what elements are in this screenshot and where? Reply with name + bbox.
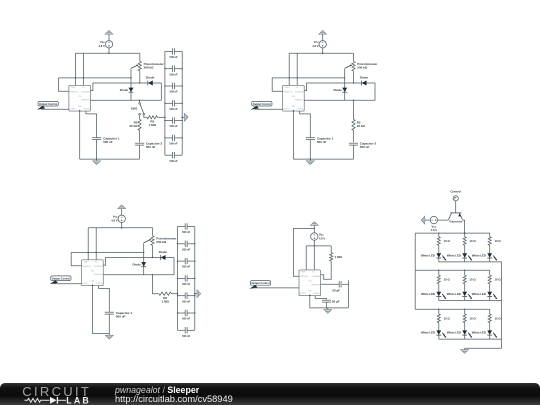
wire rail to VCC pin (95, 228, 97, 260)
wire CONTROL pin to capacitor (315, 296, 326, 300)
svg-text:http://circuitlab.com/cv58949: http://circuitlab.com/cv58949 (115, 394, 233, 404)
resistor 1 MOhm (330, 246, 332, 253)
wire potentiometer wiper (59, 69, 132, 78)
wire THRESHOLD line (91, 99, 162, 101)
wire GND pin down (79, 111, 81, 159)
wire LED row 1 bottom rail (439, 261, 502, 263)
ground (right-pointing) on ladder (182, 116, 184, 118)
power ground (flipped) for Vcc source (319, 31, 327, 35)
ground (309, 159, 311, 161)
voltage source V1 4.8 V (319, 41, 326, 48)
wire LED row 2 bottom rail (439, 300, 502, 302)
wire DISCHARGE pin to diode line (304, 83, 375, 91)
wire bottom rail (310, 307, 349, 309)
wire rail drops to IC (305, 246, 307, 270)
LED D3 White LED (487, 253, 492, 257)
wire Vcc rail (76, 52, 140, 54)
ground for LED array (464, 348, 466, 349)
potentiometer 500 kOhm (139, 53, 141, 61)
wire R2 to capacitor 2 (353, 130, 355, 142)
wire collector to rail (463, 220, 465, 233)
LED D8 White LED (462, 330, 467, 335)
wire capacitor to bottom rail (342, 283, 348, 285)
capacitor C6 500 nF (165, 137, 173, 139)
wire switch to R2 (139, 115, 141, 119)
potentiometer 500 kOhm (353, 53, 355, 61)
wire diode loop right side (374, 83, 376, 100)
555 timer U2 (299, 270, 321, 296)
wire from V1 to Vcc rail (108, 48, 110, 54)
capacitor 1 500 nF (306, 137, 315, 139)
wire junction to R2 (353, 100, 355, 119)
wire wiper to TRIGGER pin (272, 78, 282, 91)
wire bottom rail (293, 158, 353, 160)
resistor R9 10 Ohm (489, 309, 491, 314)
LED D1 White LED (436, 253, 441, 257)
capacitor C7 500 nF (165, 154, 173, 156)
output control flag (38, 101, 58, 106)
wire flag to OUTPUT pin (41, 108, 69, 110)
wire CONTROL pin to capacitor 1 (99, 286, 110, 312)
capacitor C4 500 nF (178, 277, 186, 279)
wire from V1 to Vcc rail (121, 222, 123, 228)
wire flag to OUTPUT pin (54, 283, 82, 285)
resistor R2 22 kOhm (352, 119, 355, 130)
svg-text:LAB: LAB (66, 395, 91, 405)
resistor R3 10 Ohm (489, 233, 491, 237)
resistor R3 1 MOhm (bottom-left) (159, 292, 172, 295)
resistor R1 10 Ohm (438, 233, 440, 237)
wire potentiometer wiper (71, 243, 144, 252)
resistor R3 1 MOhm (147, 116, 158, 119)
capacitor C7 500 nF (178, 329, 186, 331)
resistor R5 10 Ohm (464, 270, 466, 275)
wire wiper to TRIGGER pin (59, 78, 69, 91)
wire CONTROL pin to capacitor 1 (300, 111, 311, 137)
capacitor 2 500 nF (135, 142, 144, 144)
wire LED grid top rail (415, 232, 490, 234)
diode D2 (vertical) (143, 252, 145, 274)
wire bottom rail (92, 333, 109, 335)
capacitor 1 500 nF (92, 137, 101, 139)
capacitor 50 uF (vertical) (322, 299, 331, 301)
wire DISCHARGE pin to diode line (103, 258, 174, 266)
diode D1 (horizontal) (161, 255, 166, 260)
ground (108, 334, 110, 336)
resistor R8 10 Ohm (464, 309, 466, 314)
wire LED grid left bus (414, 233, 416, 309)
wire GND pin down (91, 286, 93, 334)
wire potentiometer wiper (272, 69, 345, 78)
output control flag (250, 281, 270, 286)
capacitor C4 500 nF (165, 102, 173, 104)
resistor R7 10 Ohm (438, 309, 440, 314)
wire rail to VCC pin (296, 53, 298, 85)
capacitor 50 uF (horizontal) (338, 281, 340, 287)
wire ground wrap to left pin (293, 228, 314, 276)
wire from V1 to Vcc rail (322, 48, 324, 54)
capacitor C3 500 nF (165, 85, 173, 87)
wire LED grid row3 top rail (415, 308, 490, 310)
wire flag to OUTPUT pin (255, 108, 283, 110)
ground (left-pointing) (425, 219, 431, 221)
voltage source V1 4.8 V (105, 41, 112, 48)
wire bottom rail (80, 158, 140, 160)
wire LED grid right bus (501, 262, 503, 348)
wire LED row 3 bottom rail (439, 338, 502, 340)
capacitor 1 500 nF (105, 311, 114, 313)
voltage source Vcc 4.8 V (horizontal) (430, 216, 437, 223)
voltage source V1 4.8 V (118, 215, 125, 222)
LED D6 White LED (487, 292, 492, 297)
diode D2 (vertical) (344, 78, 346, 100)
555 timer U1 (283, 85, 305, 111)
capacitor C1 500 nF (178, 226, 186, 228)
wire rail to RESET pin (75, 53, 77, 85)
wire switch to R3 (144, 115, 147, 117)
LED D2 White LED (462, 253, 467, 257)
wire GND pin down (292, 111, 294, 159)
capacitor 2 500 nF (349, 142, 358, 144)
voltage source 4.8 V (311, 233, 318, 240)
capacitor C6 500 nF (178, 312, 186, 314)
LED D9 White LED (487, 330, 492, 335)
wire right pin to coupling capacitor (321, 283, 340, 285)
output control flag (252, 101, 272, 106)
wire DISCHARGE pin to diode line (91, 83, 162, 91)
wire diode loop right side (160, 83, 162, 100)
wire GND pin down (309, 296, 311, 308)
LED D4 White LED (436, 292, 441, 297)
power ground (flipped) for Vcc source (105, 31, 113, 35)
wire flag to OUTPUT pin (253, 287, 299, 289)
diode D2 (vertical) (130, 78, 132, 100)
capacitor C5 500 nF (165, 120, 173, 122)
resistor R6 10 Ohm (489, 270, 491, 275)
wire emitter from source (437, 219, 448, 221)
footer bar (0, 383, 540, 405)
wire THRESHOLD line (103, 274, 174, 276)
wire R2 to capacitor 2 (139, 130, 141, 142)
ground (right-pointing) on ladder (bottom-left) (195, 293, 197, 295)
diode D1 (horizontal) (148, 81, 153, 86)
LED D5 White LED (462, 292, 467, 297)
capacitor C2 500 nF (165, 68, 173, 70)
ground (327, 308, 329, 310)
switch SW1 (139, 100, 141, 102)
capacitor C1 500 nF (165, 50, 173, 52)
wire wiper to TRIGGER pin (71, 252, 81, 265)
ground (96, 159, 98, 161)
resistor R2 10 Ohm (464, 233, 466, 237)
555 timer U1 (69, 85, 91, 111)
wire bottom jog to ground (465, 347, 502, 349)
capacitor C2 500 nF (178, 243, 186, 245)
transistor Q1 (PNP) (450, 212, 461, 214)
LED D7 White LED (436, 330, 441, 335)
potentiometer 500 kOhm (152, 228, 154, 236)
power ground (flipped) for Vcc source (118, 205, 126, 209)
power ground (flipped) (310, 222, 318, 226)
wire LED grid row2 top rail (415, 269, 490, 271)
wire source to rail (313, 240, 315, 246)
555 timer U1 (82, 260, 104, 286)
wire THRESHOLD line (304, 99, 375, 101)
wire junction to R3 (bottom-left) (152, 274, 153, 275)
wire Vcc rail (88, 227, 152, 229)
wire Vcc rail (289, 52, 353, 54)
wire rail to RESET pin (288, 53, 290, 85)
wire port to transistor base (455, 201, 457, 213)
capacitor ladder rails (164, 51, 166, 155)
wire rail to RESET pin (87, 228, 89, 260)
resistor R4 10 Ohm (438, 270, 440, 275)
wire rail to VCC pin (83, 53, 85, 85)
diode D1 (horizontal) (362, 81, 367, 86)
capacitor ladder rails (177, 227, 179, 331)
capacitor C5 500 nF (178, 295, 186, 297)
output control flag (51, 276, 71, 281)
wire diode loop right side (173, 258, 175, 275)
resistor R2 22 kOhm (138, 119, 141, 130)
wire CONTROL pin to capacitor 1 (86, 111, 97, 137)
capacitor C3 500 nF (178, 260, 186, 262)
wire Vcc rail (306, 245, 331, 247)
